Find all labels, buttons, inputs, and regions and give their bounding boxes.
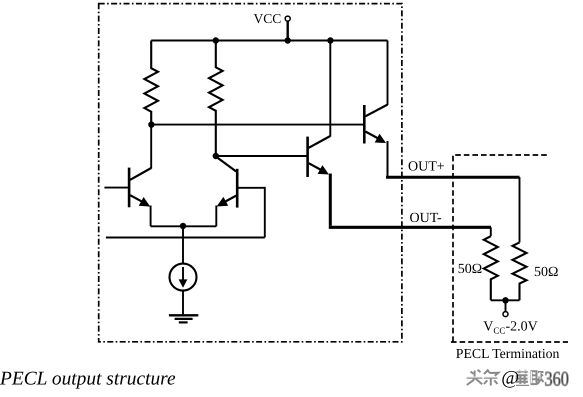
svg-text:50Ω: 50Ω: [534, 265, 558, 280]
wire VCC stub: [287, 21, 289, 41]
svg-text:OUT+: OUT+: [408, 160, 445, 175]
svg-text:VCC: VCC: [254, 11, 282, 26]
wire node B to Q3 base: [216, 155, 308, 157]
wire terminal stub: [505, 300, 507, 311]
resistor R2 (right load): [209, 41, 223, 157]
resistor RT1 50ohm (left termination): [484, 236, 498, 300]
char tun: [532, 371, 544, 384]
svg-text:VCC-2.0V: VCC-2.0V: [483, 320, 537, 336]
char lan: [516, 370, 529, 385]
svg-text:360: 360: [545, 368, 569, 390]
current source I1: [170, 264, 197, 315]
svg-text:@: @: [501, 368, 519, 389]
main circuit boundary box (dash-dot): [99, 4, 402, 342]
PECL termination boundary box (dashed, open right side): [451, 155, 568, 342]
wire tail current feed: [182, 226, 184, 264]
svg-text:OUT-: OUT-: [410, 211, 442, 226]
junction dot node A (R1 bottom): [148, 121, 154, 127]
wire OUT+ bold horizontal: [386, 176, 520, 179]
ground: [169, 315, 198, 322]
junction dot termination: [502, 297, 508, 303]
char tou: [467, 370, 483, 385]
node VCC: terminal circle: [285, 16, 290, 21]
wire top VCC rail: [151, 40, 387, 42]
wire OUT- bold emitter drop: [329, 174, 332, 226]
wire node A to Q4 base: [151, 124, 364, 126]
char tiao: [484, 370, 498, 386]
wire lower input line: [106, 237, 265, 239]
wire OUT- bold horizontal: [329, 226, 491, 229]
junction dot VCC: [285, 37, 291, 43]
wire termination bottom rail: [491, 299, 520, 301]
wire Q2 base loop right and down: [264, 187, 266, 238]
wire OUT- drop to RT1: [490, 227, 492, 236]
junction dot Q3 collector rail: [327, 37, 333, 43]
transistor Q4 (emitter follower OUT+): [364, 41, 387, 177]
wire common emitter rail: [151, 225, 217, 227]
node VCC-2.0V terminal circle: [503, 312, 508, 317]
wire OUT+ drop to RT2: [519, 177, 521, 242]
transistor Q3 (emitter follower OUT-): [308, 41, 331, 178]
svg-text:50Ω: 50Ω: [458, 262, 482, 277]
junction dot node B (R2 bottom): [213, 153, 219, 159]
watermark: toutiao @lantun360: [467, 368, 569, 390]
junction dot emitter rail: [180, 223, 186, 229]
junction dot R2 top: [213, 37, 219, 43]
resistor RT2 50ohm (right termination): [513, 242, 527, 300]
transistor Q2 (diff pair right, mirrored): [216, 157, 265, 227]
svg-text:PECL output structure: PECL output structure: [0, 368, 176, 389]
transistor Q1 (diff pair left): [104, 125, 151, 227]
resistor R1 (left load): [144, 41, 158, 125]
svg-text:PECL Termination: PECL Termination: [456, 346, 560, 361]
